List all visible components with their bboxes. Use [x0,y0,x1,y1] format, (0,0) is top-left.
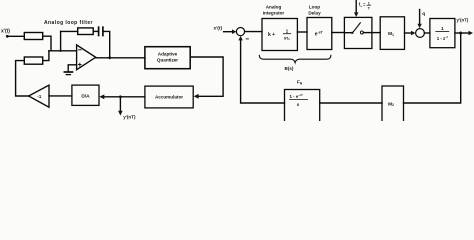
block 1/(1-z^-1) [430,19,455,48]
svg-text:fs =: fs = [359,2,366,8]
wire [49,95,72,97]
wire input arrow [224,31,233,33]
svg-text:1: 1 [286,28,289,33]
sampler switch [344,17,372,48]
wire FH to S1 [241,40,285,103]
block M2 [382,86,404,122]
block M1 [380,17,404,50]
junction [119,95,122,98]
resistor R3 [78,28,94,35]
svg-text:-1: -1 [37,94,42,100]
block loop delay e^-sT [307,18,332,50]
block Adaptive Quantizer [145,47,190,69]
svg-text:M1: M1 [388,31,394,37]
wire fs sampling arrow [355,0,357,13]
svg-text:s: s [297,102,300,107]
wire feedback right side [404,33,461,103]
svg-text:x'(t): x'(t) [214,25,223,31]
label Loop Delay [308,5,321,16]
wire [7,35,24,37]
wire node to op-amp [49,50,77,52]
block D/A [72,85,99,105]
wire [43,36,51,51]
svg-text:sτ1: sτ1 [284,35,290,41]
resistor R2 [24,57,42,64]
wire [93,30,98,32]
svg-text:1 - e-sT: 1 - e-sT [290,93,303,99]
brace B(s) [259,55,331,62]
junction [459,32,462,35]
wire quantizer to accumulator [190,57,223,96]
wire op-amp output [96,57,145,59]
ground [64,65,76,75]
summing junction S2 [416,29,425,38]
capacitor C1 [99,27,103,35]
wire [245,31,262,33]
svg-text:k +: k + [268,32,275,38]
wire [104,31,110,57]
wire [297,31,307,33]
svg-text:y'(nT): y'(nT) [123,115,136,120]
svg-text:e-sT: e-sT [315,31,324,38]
label fs = 1/T [359,1,371,10]
block FH (1-e^-sT)/s [285,90,320,123]
wire output [455,32,469,34]
wire M1 to S2 [405,32,412,34]
svg-text:1 - z-1: 1 - z-1 [437,35,449,41]
wire -1 output to R2 [16,61,29,96]
node x'(t) input terminal [1,29,10,38]
svg-text:y'(nT): y'(nT) [457,17,469,22]
svg-text:T: T [368,6,371,10]
op-amp U1 [77,45,96,70]
junction [59,50,61,52]
svg-text:Quantizer: Quantizer [157,58,178,63]
svg-text:Loop: Loop [309,5,320,10]
block analog integrator k+1/st1 [262,19,297,51]
wire [43,51,49,61]
svg-text:B(s): B(s) [285,66,294,71]
svg-text:1: 1 [368,1,370,5]
wire q arrow [419,10,421,25]
svg-text:Accumulator: Accumulator [155,95,183,100]
svg-text:1: 1 [441,26,444,32]
svg-text:Analog: Analog [266,5,282,10]
junction [108,56,111,59]
svg-text:q: q [422,12,425,17]
svg-text:M2: M2 [388,101,394,107]
svg-text:FH: FH [297,80,303,86]
wire M2 to FH [320,102,382,104]
svg-text:x'(t): x'(t) [1,29,10,35]
summing junction S1 [236,28,244,36]
wire y(nT) branch [119,97,121,111]
svg-text:Analog loop filter: Analog loop filter [44,20,93,26]
wire [61,30,78,32]
wire [372,32,380,34]
wire [332,32,345,34]
wire [424,32,430,34]
label minus [246,38,248,40]
amplifier -1 [29,85,49,107]
resistor R1 [24,33,42,40]
label Analog Integrator [263,5,285,16]
wire accumulator to D/A [104,96,145,98]
svg-text:Integrator: Integrator [263,10,285,15]
svg-text:Delay: Delay [308,10,321,15]
block Accumulator [145,86,193,108]
svg-text:D/A: D/A [81,93,90,99]
svg-text:Adaptive: Adaptive [158,52,178,57]
wire feedback tap [60,31,62,50]
